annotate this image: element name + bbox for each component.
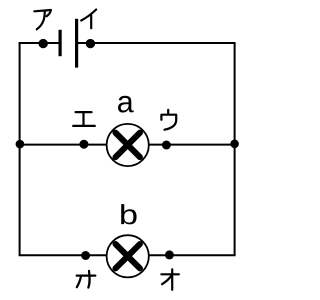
label ウ	[161, 110, 176, 130]
lamp b	[107, 235, 149, 277]
wire left vertical	[19, 43, 21, 255]
wire top-right segment	[77, 42, 236, 44]
label オ	[161, 269, 178, 289]
junction left node	[16, 140, 25, 149]
battery positive plate (tall)	[75, 19, 78, 68]
node ウ dot	[162, 141, 171, 150]
label a	[118, 96, 134, 113]
wire middle branch	[20, 144, 235, 146]
label ア	[34, 10, 51, 29]
wire bottom branch	[19, 254, 236, 256]
node カ dot	[81, 251, 90, 260]
node イ terminal dot	[86, 39, 95, 48]
battery negative plate (short)	[58, 30, 61, 56]
label イ	[81, 10, 96, 29]
label エ	[73, 112, 95, 126]
lamp a	[107, 124, 149, 166]
label カ	[77, 271, 96, 288]
junction right node	[230, 140, 239, 149]
wire right vertical	[234, 43, 236, 255]
node エ dot	[79, 140, 88, 149]
label b	[121, 204, 136, 224]
wire top-left segment	[19, 42, 59, 44]
node オ dot	[165, 250, 174, 259]
node ア terminal dot	[39, 39, 48, 48]
